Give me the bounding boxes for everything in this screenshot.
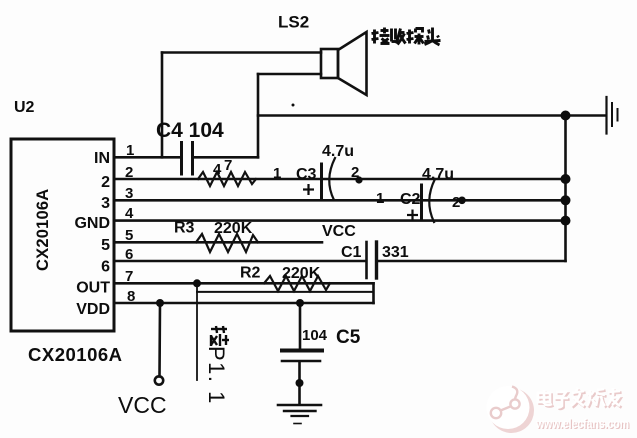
svg-text:1: 1	[376, 190, 384, 207]
svg-text:8: 8	[127, 288, 135, 305]
svg-text:LS2: LS2	[278, 13, 309, 32]
svg-text:7: 7	[224, 157, 232, 174]
svg-text:3: 3	[125, 185, 133, 202]
svg-text:C5: C5	[336, 327, 361, 348]
svg-text:IN: IN	[94, 150, 110, 167]
svg-text:4: 4	[213, 161, 222, 178]
svg-text:VCC: VCC	[118, 392, 167, 418]
svg-text:P1. 1: P1. 1	[204, 346, 229, 405]
svg-text:104: 104	[302, 327, 328, 344]
svg-text:2: 2	[101, 174, 110, 191]
svg-text:U2: U2	[14, 99, 35, 116]
svg-text:2: 2	[452, 194, 460, 211]
svg-text:4.7u: 4.7u	[322, 143, 354, 160]
svg-text:OUT: OUT	[76, 280, 110, 297]
svg-text:7: 7	[125, 268, 133, 285]
svg-text:331: 331	[382, 244, 409, 261]
svg-text:CX20106A: CX20106A	[28, 344, 123, 365]
svg-text:3: 3	[101, 195, 110, 212]
svg-text:6: 6	[125, 246, 133, 263]
svg-text:VDD: VDD	[76, 301, 110, 318]
svg-text:220K: 220K	[214, 220, 253, 237]
svg-text:VCC: VCC	[322, 223, 356, 240]
svg-text:6: 6	[101, 259, 110, 276]
svg-text:C1: C1	[341, 244, 362, 261]
svg-text:R2: R2	[240, 265, 261, 282]
svg-text:1: 1	[273, 165, 281, 182]
svg-text:CX20106A: CX20106A	[34, 189, 52, 271]
svg-text:C3: C3	[296, 166, 317, 183]
svg-text:C4 104: C4 104	[156, 119, 224, 142]
svg-text:4.7u: 4.7u	[422, 166, 454, 183]
svg-text:www.elecfans.com: www.elecfans.com	[535, 417, 629, 431]
svg-text:5: 5	[125, 227, 133, 244]
svg-text:2: 2	[351, 164, 359, 181]
svg-text:4: 4	[125, 205, 134, 222]
svg-text:1: 1	[126, 142, 134, 159]
svg-text:5: 5	[101, 237, 110, 254]
svg-text:C2: C2	[400, 191, 421, 208]
svg-text:2: 2	[125, 164, 133, 181]
svg-text:220K: 220K	[282, 265, 321, 282]
svg-text:GND: GND	[74, 215, 110, 232]
svg-text:R3: R3	[174, 220, 195, 237]
